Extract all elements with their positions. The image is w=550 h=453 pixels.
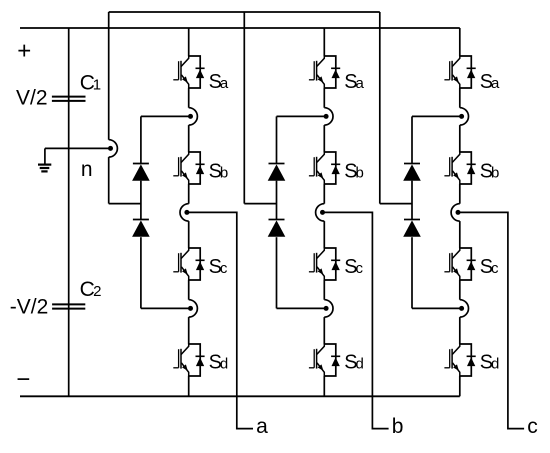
IGBT Sc (phase a): antiparallel diode branch [189, 248, 205, 280]
IGBT Sa (phase c): gate [444, 61, 449, 80]
node Sa-Sb junction (phase c): wire-hop arc and junction dot [459, 108, 468, 125]
svg-text:Sc: Sc [344, 256, 363, 278]
wire: between clamp diodes (phase a) [140, 181, 142, 220]
wire: Sc emitter down (phase c) [459, 280, 461, 300]
wire: Sd emitter to -bus (phase c) [459, 376, 461, 396]
svg-text:a: a [256, 415, 268, 438]
svg-text:Sd: Sd [480, 352, 500, 374]
wire: positive DC bus (+) [20, 27, 460, 29]
capacitor C2 [52, 304, 85, 308]
IGBT Sa (phase a): collector-emitter branch [181, 56, 189, 88]
clamp diode D2 (phase a) [132, 220, 150, 237]
wire: Sc emitter down (phase a) [188, 280, 190, 300]
svg-text:C2: C2 [80, 278, 102, 301]
node Sc-Sd junction (phase c): wire-hop arc and junction dot [459, 300, 468, 317]
wire: +bus to Sa collector (phase a) [188, 28, 190, 56]
svg-text:c: c [527, 415, 538, 438]
svg-text:Sb: Sb [209, 160, 229, 182]
wire: +bus to Sa collector (phase c) [459, 28, 461, 56]
svg-text:+: + [17, 38, 31, 65]
IGBT Sa (phase b): gate [309, 61, 314, 80]
wire: Sb emitter down (phase a) [188, 184, 190, 204]
clamp diode D2 (phase c) [403, 220, 421, 237]
IGBT Sd (phase a): collector-emitter branch [181, 344, 189, 376]
IGBT Sa (phase b): antiparallel diode branch [324, 56, 340, 88]
wire: output of phase b [323, 212, 389, 428]
IGBT Sb (phase a): collector-emitter branch [181, 152, 189, 184]
wire: node to Sc collector (phase c) [459, 221, 461, 248]
IGBT Sa (phase c): antiparallel diode branch [460, 56, 476, 88]
node Sc-Sd junction (phase a): wire-hop arc and junction dot [188, 300, 197, 317]
wire: node to Sc collector (phase b) [323, 221, 325, 248]
wire: Sa emitter down (phase b) [323, 88, 325, 108]
node output node (phase c): wire-hop arc and junction dot [451, 204, 460, 221]
wire: D1 cathode to upper node (phase a) [141, 115, 191, 117]
clamp diode D1 (phase c) [403, 164, 421, 181]
wire: clamp-diode column bottom (phase b) [276, 237, 278, 308]
IGBT Sb (phase b): collector-emitter branch [317, 152, 325, 184]
wire: node to Sd collector (phase b) [323, 317, 325, 344]
svg-text:−: − [16, 366, 30, 393]
IGBT Sa (phase b): collector-emitter branch [317, 56, 325, 88]
node Sa-Sb junction (phase b): wire-hop arc and junction dot [324, 108, 333, 125]
wire: neutral to clamp diodes midpoint (phase b) [244, 203, 276, 205]
IGBT Sc (phase a): collector-emitter branch [181, 248, 189, 280]
wire: Sb emitter down (phase c) [459, 184, 461, 204]
IGBT Sc (phase c): collector-emitter branch [452, 248, 460, 280]
clamp diode D2 (phase b) [268, 220, 286, 237]
IGBT Sc (phase a): gate [173, 253, 178, 272]
wire: between clamp diodes (phase c) [411, 181, 413, 220]
IGBT Sc (phase b): antiparallel diode branch [324, 248, 340, 280]
wire: output of phase a [187, 212, 253, 428]
ground [38, 148, 51, 171]
svg-text:b: b [392, 415, 404, 438]
svg-text:Sa: Sa [209, 71, 229, 93]
node Sa-Sb junction (phase a): wire-hop arc and junction dot [188, 108, 197, 125]
IGBT Sb (phase c): antiparallel diode branch [460, 152, 476, 184]
wire: output of phase c [458, 212, 524, 428]
wire: D1 cathode to upper node (phase c) [412, 115, 462, 117]
wire: Sb emitter down (phase b) [323, 184, 325, 204]
IGBT Sd (phase c): collector-emitter branch [452, 344, 460, 376]
IGBT Sa (phase a): gate [173, 61, 178, 80]
IGBT Sa (phase c): collector-emitter branch [452, 56, 460, 88]
svg-text:n: n [81, 158, 93, 181]
IGBT Sb (phase a): gate [173, 157, 178, 176]
wire: D2 anode to lower node (phase a) [141, 307, 191, 309]
wire: neutral vertical (phase c) [379, 12, 381, 204]
wire: D1 cathode to upper node (phase b) [277, 115, 327, 117]
wire: Sa emitter down (phase c) [459, 88, 461, 108]
wire: neutral vertical (phase b) [243, 12, 245, 204]
wire: node to Sb collector (phase c) [459, 125, 461, 152]
wire: ground to neutral node n [45, 147, 111, 149]
wire: Sc emitter down (phase b) [323, 280, 325, 300]
IGBT Sd (phase b): antiparallel diode branch [324, 344, 340, 376]
IGBT Sb (phase c): collector-emitter branch [452, 152, 460, 184]
IGBT Sb (phase b): antiparallel diode branch [324, 152, 340, 184]
IGBT Sb (phase b): gate [309, 157, 314, 176]
wire: negative DC bus (-) [20, 395, 460, 397]
IGBT Sc (phase b): gate [309, 253, 314, 272]
node output node (phase a): wire-hop arc and junction dot [180, 204, 189, 221]
wire: neutral top rail [109, 11, 380, 13]
svg-text:Sa: Sa [344, 71, 364, 93]
wire: D2 anode to lower node (phase c) [412, 307, 462, 309]
svg-text:Sd: Sd [209, 352, 229, 374]
svg-text:-V/2: -V/2 [10, 296, 49, 319]
IGBT Sd (phase c): gate [444, 349, 449, 368]
wire: Sd emitter to -bus (phase a) [188, 376, 190, 396]
wire: neutral vertical (phase a), upper part [108, 12, 110, 140]
IGBT Sc (phase c): gate [444, 253, 449, 272]
svg-text:Sb: Sb [480, 160, 500, 182]
wire: node to Sd collector (phase a) [188, 317, 190, 344]
wire: clamp-diode column top (phase a) [140, 116, 142, 163]
node output node (phase b): wire-hop arc and junction dot [316, 204, 325, 221]
IGBT Sa (phase a): antiparallel diode branch [189, 56, 205, 88]
wire: Sa emitter down (phase a) [188, 88, 190, 108]
clamp diode D1 (phase a) [132, 164, 150, 181]
IGBT Sb (phase a): antiparallel diode branch [189, 152, 205, 184]
wire: D2 anode to lower node (phase b) [277, 307, 327, 309]
clamp diode D1 (phase b) [268, 164, 286, 181]
wire: between clamp diodes (phase b) [276, 181, 278, 220]
wire: clamp-diode column bottom (phase c) [411, 237, 413, 308]
IGBT Sd (phase a): gate [173, 349, 178, 368]
svg-text:Sc: Sc [480, 256, 499, 278]
wire: clamp-diode column top (phase c) [411, 116, 413, 163]
wire: +bus to Sa collector (phase b) [323, 28, 325, 56]
node n junction: wire-hop arc and junction dot [108, 140, 117, 157]
svg-text:Sc: Sc [209, 256, 228, 278]
svg-text:C1: C1 [80, 71, 101, 94]
wire: Sd emitter to -bus (phase b) [323, 376, 325, 396]
svg-text:Sd: Sd [344, 352, 364, 374]
svg-text:Sa: Sa [480, 71, 500, 93]
wire: clamp-diode column top (phase b) [276, 116, 278, 163]
wire: node to Sb collector (phase b) [323, 125, 325, 152]
svg-text:V/2: V/2 [16, 87, 48, 110]
capacitor C1 [52, 97, 86, 101]
IGBT Sb (phase c): gate [444, 157, 449, 176]
IGBT Sd (phase c): antiparallel diode branch [460, 344, 476, 376]
wire: node to Sc collector (phase a) [188, 221, 190, 248]
wire: node to Sb collector (phase a) [188, 125, 190, 152]
wire: neutral to clamp diodes midpoint (phase c) [380, 203, 412, 205]
IGBT Sd (phase a): antiparallel diode branch [189, 344, 205, 376]
IGBT Sd (phase b): collector-emitter branch [317, 344, 325, 376]
IGBT Sc (phase c): antiparallel diode branch [460, 248, 476, 280]
wire: clamp-diode column bottom (phase a) [140, 237, 142, 308]
wire: neutral vertical (phase a), lower part [108, 157, 110, 204]
wire: DC-link capacitor leg [68, 28, 70, 396]
IGBT Sd (phase b): gate [309, 349, 314, 368]
wire: neutral to clamp diodes midpoint (phase a) [109, 203, 141, 205]
svg-text:Sb: Sb [344, 160, 364, 182]
wire: node to Sd collector (phase c) [459, 317, 461, 344]
IGBT Sc (phase b): collector-emitter branch [317, 248, 325, 280]
node Sc-Sd junction (phase b): wire-hop arc and junction dot [324, 300, 333, 317]
